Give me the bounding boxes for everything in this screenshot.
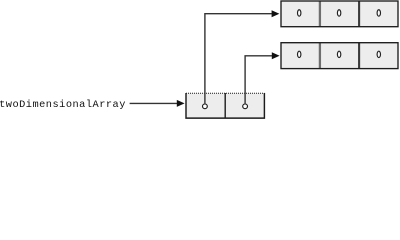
svg-text:twoDimensionalArray: twoDimensionalArray [0, 99, 125, 111]
